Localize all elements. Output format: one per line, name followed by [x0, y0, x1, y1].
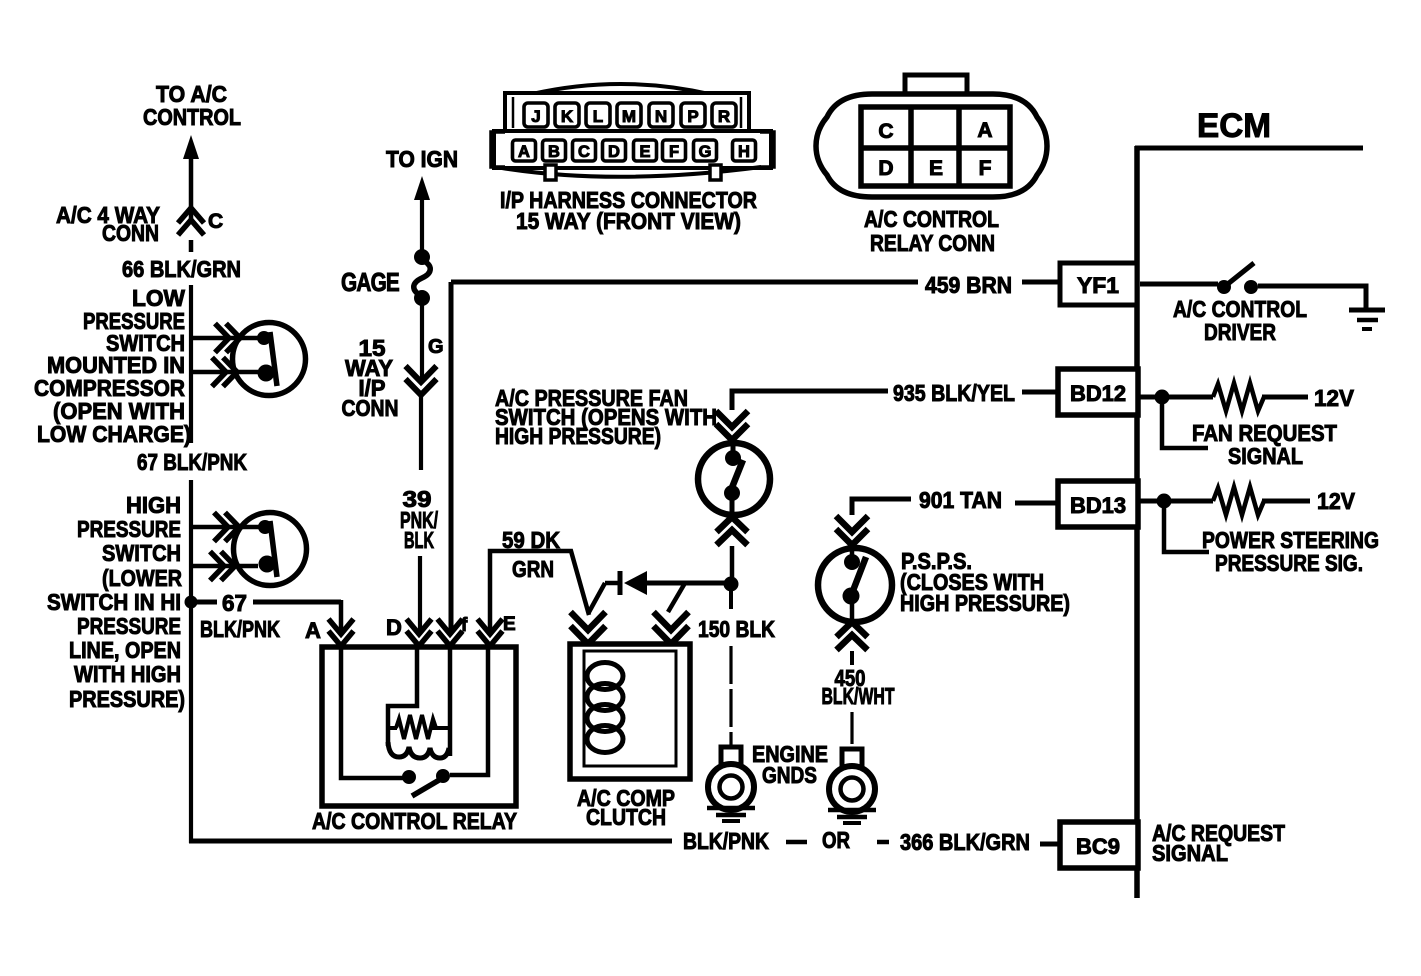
wire node to clutch chevron 2 (diagonal) [668, 583, 685, 612]
bottom rail wire to BC9 [189, 839, 672, 844]
pointer line fan request signal [1162, 403, 1208, 448]
ECM vertical line [1134, 146, 1140, 898]
bottom rail into BC9 [1040, 842, 1061, 847]
wire 935 BLK/YEL from fan switch [732, 391, 888, 410]
svg-text:N: N [655, 107, 667, 126]
connector lower shell [494, 131, 771, 168]
connector top arc [532, 84, 709, 94]
svg-text:DRIVER: DRIVER [1204, 319, 1276, 345]
relay conn divider 2 [956, 107, 962, 186]
svg-text:GRN: GRN [512, 556, 554, 582]
relay internal wire pin F to coil [448, 649, 453, 756]
junction dot BD13 [1157, 494, 1172, 509]
fan switch top chevron [716, 411, 748, 440]
svg-text:CONN: CONN [102, 220, 159, 246]
A/C control relay connector [816, 75, 1047, 197]
svg-text:ECM: ECM [1197, 107, 1271, 145]
relay conn top tab [905, 75, 967, 100]
relay coil scallops [388, 742, 449, 758]
connector lower row cells A B C D E F G H [513, 140, 536, 161]
relay pin D chevron [407, 619, 432, 646]
A/C comp clutch inner box [584, 651, 676, 766]
svg-text:E: E [503, 614, 516, 635]
svg-text:935 BLK/YEL: 935 BLK/YEL [893, 380, 1015, 406]
svg-text:E: E [929, 157, 943, 180]
fan switch bottom chevron [717, 517, 748, 545]
wire YF1 to driver switch [1140, 282, 1218, 287]
svg-text:59 DK: 59 DK [502, 527, 560, 553]
wire 66 BLK/GRN vertical [189, 285, 193, 443]
wire BD12 to resistor [1140, 395, 1213, 400]
svg-text:H: H [738, 143, 750, 161]
wire to high pressure switch top contact [191, 525, 260, 530]
svg-text:66 BLK/GRN: 66 BLK/GRN [122, 256, 241, 282]
low pressure switch blade [270, 332, 277, 386]
connector mounting tabs [545, 165, 556, 180]
svg-text:BLK/WHT: BLK/WHT [822, 683, 895, 709]
PSPS bottom stub [850, 597, 855, 623]
P.S.P.S. switch circle [818, 548, 892, 622]
svg-text:BC9: BC9 [1076, 834, 1120, 859]
svg-text:D: D [608, 143, 620, 161]
svg-text:PRESSURE: PRESSURE [77, 613, 181, 639]
ECM pin box BC9 [1060, 822, 1138, 868]
svg-text:LOW CHARGE): LOW CHARGE) [37, 421, 191, 447]
connector upper row cells J K L M N P R [524, 103, 548, 127]
svg-text:K: K [561, 107, 574, 126]
fan switch bottom contact dot [724, 485, 740, 501]
chevron high pressure switch top [214, 513, 239, 542]
svg-text:15 WAY (FRONT VIEW): 15 WAY (FRONT VIEW) [516, 208, 741, 234]
relay conn divider 1 [908, 107, 914, 186]
driver switch blade [1229, 263, 1254, 283]
ground symbol (A/C control driver) [1349, 308, 1385, 313]
fan switch top contact dot [725, 450, 741, 466]
wire driver switch to ground [1258, 286, 1366, 309]
wire to low pressure switch bottom contact [191, 370, 258, 375]
wire 450 BLK/WHT to engine ground [850, 712, 853, 750]
svg-text:HIGH PRESSURE): HIGH PRESSURE) [900, 590, 1070, 616]
relay internal wire from pin A to switch [341, 649, 403, 778]
wire resistor to 12V [1262, 395, 1308, 400]
resistor power steering pull-up [1213, 487, 1264, 515]
junction dot node 67 [185, 596, 198, 609]
svg-text:SIGNAL: SIGNAL [1228, 443, 1303, 469]
junction dot BD12 [1155, 390, 1170, 405]
clutch pin chevron 1 [571, 612, 606, 644]
ECM pin box BD12 [1058, 369, 1138, 415]
connector pin G chevron (15-way I/P conn) [406, 366, 437, 395]
connector pin C chevron (A/C 4-way conn) [178, 208, 204, 235]
svg-text:F: F [669, 143, 679, 161]
high pressure switch blade [270, 521, 277, 577]
fuse GAGE top dot [414, 249, 430, 265]
wire 459 BRN into YF1 [1022, 280, 1062, 285]
svg-text:12V: 12V [1314, 385, 1355, 411]
relay switch contact dot 2 [436, 769, 450, 783]
A/C pressure fan switch circle [698, 443, 770, 515]
svg-text:YF1: YF1 [1077, 273, 1119, 298]
relay pin E chevron [478, 619, 503, 646]
wire 39 PNK/BLK upper [419, 396, 423, 470]
svg-text:E: E [639, 143, 650, 161]
high pressure switch top contact dot [258, 520, 272, 534]
svg-text:R: R [718, 107, 730, 126]
PSPS bottom chevron [837, 622, 868, 650]
svg-text:67 BLK/PNK: 67 BLK/PNK [137, 449, 247, 475]
svg-text:C: C [578, 143, 590, 161]
clutch coil loops [587, 663, 623, 690]
pointer line power steering signal [1164, 508, 1209, 552]
wire resistor to 12V (psps) [1262, 499, 1310, 504]
wire to low pressure switch top contact [191, 336, 260, 341]
wire 450 BLK/WHT upper [850, 651, 854, 665]
wire to high pressure switch bottom contact [191, 564, 258, 569]
relay conn body [816, 94, 1047, 197]
svg-text:(LOWER: (LOWER [102, 565, 182, 591]
svg-text:L: L [593, 107, 603, 126]
relay conn divider horizontal [861, 145, 1010, 151]
svg-text:12V: 12V [1317, 488, 1356, 514]
connector upper shell [505, 93, 749, 132]
chevron low pressure switch bottom [212, 358, 237, 387]
svg-text:PRESSURE): PRESSURE) [69, 686, 185, 712]
junction dot node 150 BLK [724, 577, 739, 592]
svg-text:GNDS: GNDS [762, 762, 817, 788]
svg-text:M: M [622, 107, 636, 126]
svg-text:WITH HIGH: WITH HIGH [74, 661, 181, 687]
relay internal wire pin D to coil [388, 649, 417, 746]
svg-text:SWITCH: SWITCH [102, 540, 181, 566]
A/C comp clutch box [570, 644, 690, 779]
svg-text:A/C CONTROL RELAY: A/C CONTROL RELAY [312, 808, 517, 834]
svg-text:A/C CONTROL: A/C CONTROL [864, 206, 999, 232]
wire 150 BLK to engine ground [729, 646, 732, 748]
A/C control relay box [322, 647, 516, 806]
relay resistor right lead [432, 726, 450, 730]
svg-text:A: A [518, 143, 530, 161]
wire 935 BLK/YEL into BD12 [1022, 390, 1060, 395]
bottom rail dash 2 [877, 840, 889, 845]
wire 901 TAN into BD13 [1015, 501, 1060, 506]
svg-text:GAGE: GAGE [341, 267, 400, 297]
wire 901 TAN from PSPS [852, 499, 911, 515]
wire 67 to relay pin A (left segment) [197, 600, 217, 605]
svg-text:BLK: BLK [404, 527, 434, 553]
PSPS blade [849, 557, 866, 601]
wire 39 PNK/BLK lower to relay pin D [418, 556, 422, 632]
svg-text:C: C [208, 210, 223, 233]
svg-text:BLK/PNK: BLK/PNK [200, 616, 280, 642]
driver switch dot 2 [1244, 280, 1258, 294]
svg-text:D: D [878, 157, 893, 180]
svg-text:TO IGN: TO IGN [386, 146, 458, 172]
svg-text:366 BLK/GRN: 366 BLK/GRN [900, 829, 1030, 855]
svg-text:PRESSURE SIG.: PRESSURE SIG. [1215, 550, 1363, 576]
PSPS top chevron [836, 516, 868, 545]
svg-text:BLK/PNK: BLK/PNK [683, 828, 769, 854]
wire BD13 to resistor [1140, 499, 1213, 504]
ECM pin box BD13 [1058, 481, 1138, 527]
svg-text:LINE, OPEN: LINE, OPEN [69, 637, 181, 663]
low pressure switch circle [233, 323, 306, 396]
svg-text:SIGNAL: SIGNAL [1152, 840, 1228, 866]
fan switch blade [729, 460, 743, 495]
fan switch bottom stub [730, 495, 735, 519]
driver switch dot 1 [1217, 280, 1231, 294]
fuse GAGE bottom dot [414, 290, 430, 306]
svg-text:P: P [687, 107, 698, 126]
high pressure switch bottom contact dot [259, 556, 276, 573]
fan switch top stub [731, 441, 736, 457]
relay coil resistor zigzag [396, 715, 436, 739]
relay pin A chevron [329, 619, 354, 646]
wire 67 to relay pin A (right segment) [253, 600, 341, 605]
svg-text:67: 67 [222, 590, 247, 616]
wire diode to node 150 [647, 581, 726, 586]
svg-text:150 BLK: 150 BLK [698, 616, 775, 642]
svg-text:PRESSURE: PRESSURE [77, 516, 181, 542]
wire left rail down [189, 602, 193, 843]
chevron high pressure switch bottom [210, 552, 235, 581]
svg-text:G: G [428, 336, 444, 358]
svg-text:J: J [531, 107, 540, 126]
ECM pin box YF1 [1060, 263, 1137, 305]
wire fan switch to node 150 [730, 546, 735, 580]
svg-text:A: A [977, 119, 992, 142]
wire to IGN with arrowhead [414, 176, 430, 200]
svg-text:BD13: BD13 [1070, 493, 1126, 518]
relay pin F chevron [438, 619, 463, 646]
I/P harness connector 15-way (front view) [491, 84, 774, 180]
svg-text:A: A [305, 618, 321, 643]
svg-text:CONTROL: CONTROL [143, 104, 241, 130]
clutch pin chevron 2 [654, 612, 689, 644]
svg-text:C: C [878, 120, 893, 143]
relay switch contact dot 1 [402, 770, 416, 784]
svg-text:RELAY CONN: RELAY CONN [870, 230, 995, 256]
relay resistor left lead [388, 726, 397, 730]
PSPS bottom contact dot [843, 588, 860, 605]
svg-text:HIGH: HIGH [126, 492, 181, 518]
engine ground ring terminal 1 [707, 747, 755, 821]
svg-text:OR: OR [822, 827, 850, 853]
relay internal wire pin E to switch [450, 649, 488, 775]
svg-text:B: B [548, 143, 560, 161]
connector side brackets [491, 132, 505, 167]
svg-text:HIGH PRESSURE): HIGH PRESSURE) [495, 423, 661, 449]
wire diode to clutch chevron 1 (diagonal) [589, 583, 605, 612]
wire GAGE to 15-way conn pin G [420, 303, 424, 378]
svg-text:F: F [979, 157, 992, 180]
fuse GAGE squiggle [414, 260, 431, 296]
wire 150 BLK below node [729, 591, 733, 609]
wire 59 DK GRN from relay pin E to clutch [490, 551, 589, 632]
connector bottom arc [502, 167, 761, 177]
PSPS top stub [850, 548, 855, 563]
PSPS top contact dot [844, 554, 860, 570]
bottom rail dash 1 [786, 840, 807, 845]
high pressure switch circle [234, 513, 307, 586]
svg-text:CONN: CONN [342, 395, 399, 421]
wire down to pin A [339, 600, 344, 632]
wire to A/C control with arrowhead [183, 135, 199, 159]
svg-text:CLUTCH: CLUTCH [586, 804, 666, 830]
wire stub below C chevron [189, 240, 194, 252]
relay conn cell grid [861, 107, 1010, 186]
svg-text:BD12: BD12 [1070, 381, 1126, 406]
engine ground ring terminal 2 [828, 749, 876, 823]
low pressure switch bottom contact dot [258, 365, 275, 382]
wire 459 BRN from fuse branch to pin F and YF1 [451, 282, 918, 632]
svg-text:G: G [699, 143, 712, 161]
ECM top line [1135, 146, 1363, 151]
svg-text:SWITCH IN HI: SWITCH IN HI [47, 589, 181, 615]
chevron low pressure switch top [215, 324, 240, 353]
resistor fan request pull-up [1213, 383, 1264, 411]
diode (cathode bar + triangle) [618, 571, 623, 595]
wire 67 BLK/PNK vertical [189, 480, 193, 602]
relay switch blade [412, 776, 446, 796]
svg-text:D: D [386, 615, 402, 640]
svg-text:901 TAN: 901 TAN [919, 487, 1002, 513]
low pressure switch top contact dot [257, 331, 271, 345]
wire diode anode lead [605, 581, 620, 586]
svg-text:459 BRN: 459 BRN [925, 272, 1012, 298]
